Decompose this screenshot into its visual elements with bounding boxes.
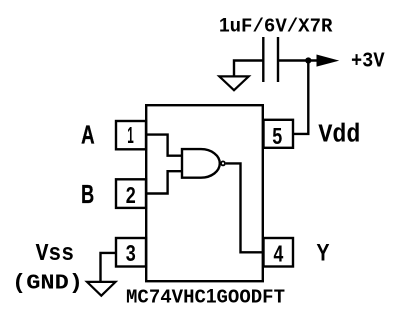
svg-text:3: 3 <box>126 240 136 266</box>
svg-text:1: 1 <box>127 122 134 148</box>
svg-text:(GND): (GND) <box>12 272 83 296</box>
svg-text:4: 4 <box>274 240 284 266</box>
svg-text:B: B <box>81 181 94 209</box>
svg-text:MC74VHC1GOODFT: MC74VHC1GOODFT <box>126 285 285 308</box>
svg-text:Vdd: Vdd <box>318 121 360 150</box>
svg-text:Y: Y <box>316 239 329 266</box>
svg-text:A: A <box>81 121 95 149</box>
svg-text:Vss: Vss <box>36 241 75 268</box>
svg-text:2: 2 <box>126 182 136 208</box>
svg-text:+3V: +3V <box>351 51 385 74</box>
svg-text:1uF/6V/X7R: 1uF/6V/X7R <box>219 14 333 37</box>
svg-text:5: 5 <box>272 123 282 149</box>
